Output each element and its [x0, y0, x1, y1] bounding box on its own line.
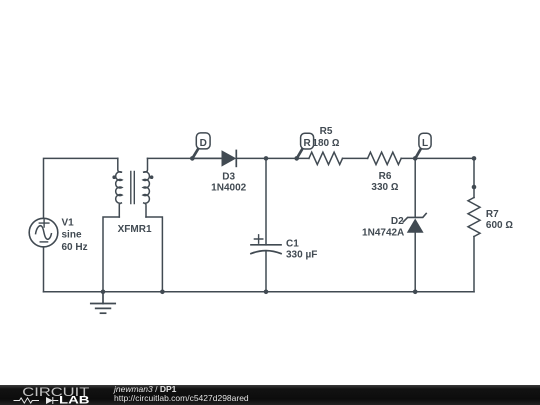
footer bar — [0, 385, 540, 405]
capacitor C1 — [251, 235, 281, 254]
junction node D — [190, 156, 195, 161]
zener diode D2 — [403, 214, 426, 222]
wire D3 cathode to node R — [236, 157, 309, 159]
wire node L down to zener D2 — [414, 158, 416, 217]
svg-text:XFMR1: XFMR1 — [118, 224, 152, 235]
svg-text:R7: R7 — [486, 209, 499, 220]
wire top right corner down to R7 — [473, 158, 475, 197]
svg-text:60 Hz: 60 Hz — [62, 242, 88, 253]
junction node L — [413, 156, 418, 161]
wire primary bottom to ground node — [103, 217, 119, 292]
svg-text:1N4002: 1N4002 — [211, 182, 246, 193]
node flag L — [416, 133, 432, 158]
svg-text:C1: C1 — [286, 238, 299, 249]
wire V1 bottom to ground rail — [43, 247, 45, 292]
wire V1 top to transformer primary — [44, 158, 118, 218]
transformer primary phase dot — [112, 175, 116, 179]
node flag R — [297, 133, 314, 158]
svg-text:V1: V1 — [62, 217, 75, 228]
junction ground node — [101, 290, 106, 295]
voltage source V1 — [29, 218, 58, 247]
svg-text:600 Ω: 600 Ω — [486, 220, 513, 231]
transformer core — [131, 172, 135, 204]
svg-text:D: D — [200, 138, 207, 149]
junction C1 top — [264, 156, 269, 161]
wire secondary bottom to ground rail — [146, 217, 162, 292]
wire secondary top to diode D3 — [148, 157, 222, 159]
junction above R7 — [472, 185, 477, 190]
ground symbol — [91, 292, 115, 313]
CircuitLab logo — [0, 385, 110, 405]
wire node D junction to C1 junction (through diode area) — [192, 157, 221, 159]
footer credit text — [114, 385, 249, 403]
ground rail (bottom wire) — [44, 291, 475, 293]
svg-text:LAB: LAB — [59, 394, 90, 405]
svg-text:330 µF: 330 µF — [286, 250, 317, 261]
zener diode D2 triangle — [407, 219, 424, 233]
svg-text:1N4742A: 1N4742A — [362, 227, 404, 238]
svg-text:R: R — [303, 138, 311, 149]
diode D3 — [222, 150, 237, 168]
node flag D — [193, 133, 211, 158]
svg-text:L: L — [422, 138, 428, 149]
svg-text:D2: D2 — [391, 216, 404, 227]
junction secondary bottom — [160, 290, 165, 295]
svg-text:R5: R5 — [320, 126, 333, 137]
svg-text:180 Ω: 180 Ω — [312, 138, 339, 149]
wire R7 bottom to ground rail — [473, 237, 475, 292]
transformer XFMR1 primary winding — [116, 158, 122, 217]
svg-text:330 Ω: 330 Ω — [371, 182, 398, 193]
resistor R5 — [309, 152, 343, 164]
junction zener bottom — [413, 290, 418, 295]
junction node R — [294, 156, 299, 161]
wire zener D2 to ground rail — [414, 233, 416, 292]
svg-text:R6: R6 — [379, 171, 392, 182]
transformer secondary phase dot — [150, 175, 154, 179]
junction C1 bottom — [264, 290, 269, 295]
resistor R7 — [468, 198, 480, 237]
wire R5 to R6 — [343, 157, 368, 159]
transformer XFMR1 secondary winding — [143, 158, 149, 217]
wire R6 to node L to top right corner — [401, 157, 474, 159]
junction top right corner — [472, 156, 477, 161]
wire C1 top — [265, 158, 267, 244]
svg-text:D3: D3 — [222, 172, 235, 183]
wire C1 bottom to ground rail — [265, 251, 267, 291]
svg-text:sine: sine — [62, 230, 82, 241]
resistor R6 — [368, 152, 402, 164]
